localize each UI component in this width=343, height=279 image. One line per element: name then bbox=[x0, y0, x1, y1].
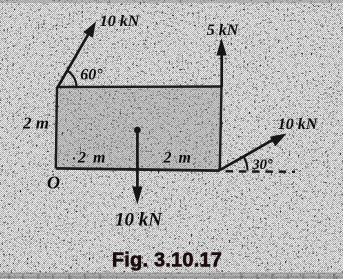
scan edge bottom band bbox=[0, 273, 343, 279]
wire bottom edge bbox=[56, 168, 220, 170]
svg-text:Fig. 3.10.17: Fig. 3.10.17 bbox=[112, 250, 222, 272]
svg-text:30°: 30° bbox=[251, 157, 273, 173]
wire left edge bbox=[56, 87, 57, 168]
svg-text:10 kN: 10 kN bbox=[115, 210, 163, 231]
force arrow 10 kN at 60deg (top-left) bbox=[58, 22, 97, 88]
svg-text:60°: 60° bbox=[80, 67, 103, 84]
force arrow 5 kN (top-right, vertical) bbox=[216, 38, 226, 87]
scan edge top band bbox=[0, 0, 343, 3]
svg-text:O: O bbox=[47, 172, 60, 192]
force arrow 10 kN at 30deg (bottom-right) bbox=[220, 134, 287, 171]
dashed reference line bbox=[226, 170, 296, 173]
force arrow 10 kN down (center) bbox=[132, 130, 142, 205]
node center dot bbox=[134, 127, 141, 134]
wire top edge bbox=[57, 85, 222, 88]
svg-text:2 m: 2 m bbox=[77, 150, 107, 167]
speck before 2m bbox=[73, 157, 75, 159]
svg-text:10 kN: 10 kN bbox=[278, 116, 319, 133]
angle arc 60deg bbox=[67, 71, 77, 88]
svg-text:10 kN: 10 kN bbox=[100, 13, 141, 30]
panel fill (rectangle body) bbox=[56, 87, 222, 171]
wire right edge bbox=[220, 87, 222, 171]
svg-text:5 kN: 5 kN bbox=[207, 22, 240, 39]
svg-text:2 m: 2 m bbox=[22, 114, 49, 133]
svg-text:2 m: 2 m bbox=[163, 150, 193, 167]
angle arc 30deg bbox=[244, 157, 248, 171]
